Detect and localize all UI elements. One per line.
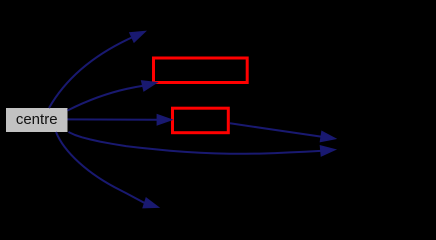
node centre (grey box) — [6, 108, 68, 132]
arrowhead to red box 1 — [141, 81, 157, 91]
wire centre to right node (long sagging edge) — [69, 132, 321, 154]
wire centre to red box 2 — [68, 118, 158, 120]
wire red box 2 to right node — [230, 123, 321, 136]
arrowhead upper right — [320, 131, 336, 141]
red box 2 (node, hidden label) — [173, 108, 229, 133]
wire centre to top node (curved edge) — [49, 38, 132, 109]
svg-text:centre: centre — [16, 111, 58, 128]
arrowhead to red box 2 — [157, 115, 172, 126]
arrowhead bottom edge — [143, 198, 159, 208]
wire centre to red box 1 — [68, 86, 143, 111]
wire centre to bottom node (curved edge) — [56, 132, 145, 203]
red box 1 (node, hidden label) — [154, 58, 248, 83]
arrowhead lower right — [320, 146, 335, 156]
arrowhead top edge — [130, 31, 146, 42]
